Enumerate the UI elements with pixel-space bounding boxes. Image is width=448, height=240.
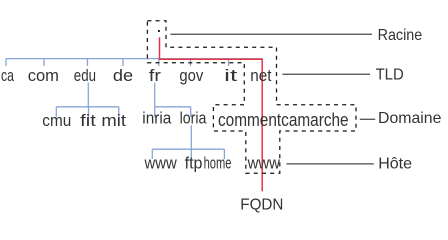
wire: tick www	[151, 149, 153, 159]
svg-text:www: www	[144, 154, 178, 173]
svg-text:TLD: TLD	[376, 67, 404, 84]
wire: tick fr	[158, 59, 160, 66]
svg-text:edu: edu	[74, 66, 96, 85]
wire: pointer line Hote	[286, 163, 373, 165]
svg-text:loria: loria	[180, 109, 207, 128]
svg-text:Domaine: Domaine	[378, 110, 442, 127]
svg-text:www: www	[247, 154, 281, 173]
wire: tick edu	[87, 59, 89, 66]
wire: tick it	[228, 59, 230, 66]
svg-text:it: it	[224, 66, 237, 85]
svg-text:mit: mit	[101, 111, 126, 130]
wire: pointer line Domaine	[360, 118, 375, 120]
dashed outline around highlighted DNS path	[147, 21, 356, 173]
wire: loria trunk	[190, 125, 192, 149]
wire: fr children bus	[155, 106, 191, 108]
svg-text:FQDN: FQDN	[240, 196, 283, 213]
svg-text:fit: fit	[80, 111, 96, 130]
wire: tick ftp	[190, 149, 192, 159]
svg-text:home: home	[204, 154, 232, 173]
svg-text:ftp: ftp	[185, 154, 203, 173]
wire: pointer line Racine	[170, 33, 372, 35]
wire: tick com	[43, 59, 45, 66]
wire: tick ca	[5, 59, 7, 66]
svg-text:cmu: cmu	[42, 111, 71, 130]
wire: loria children bus	[152, 148, 224, 150]
wire: edu children bus	[56, 106, 119, 108]
wire: tick fit	[88, 107, 90, 117]
wire: tick de	[122, 59, 124, 66]
wire: tick home	[223, 149, 225, 159]
svg-text:gov: gov	[179, 66, 203, 85]
wire: tick mit	[118, 107, 120, 117]
wire: fr trunk	[154, 83, 156, 107]
svg-text:net: net	[250, 66, 271, 85]
wire: edu trunk	[87, 83, 89, 107]
wire: red FQDN path root-net-commentcamarche-www	[160, 37, 263, 191]
wire: tick cmu	[55, 107, 57, 117]
svg-text:com: com	[28, 66, 59, 85]
svg-text:de: de	[113, 66, 133, 85]
svg-text:inria: inria	[142, 109, 171, 128]
svg-text:fr: fr	[149, 66, 161, 85]
wire: pointer line TLD	[282, 73, 370, 75]
svg-text:commentcamarche: commentcamarche	[218, 109, 349, 130]
wire: tick loria	[190, 107, 192, 117]
svg-text:ca: ca	[1, 66, 14, 85]
svg-text:Racine: Racine	[378, 27, 423, 44]
node: root dot	[158, 30, 160, 32]
wire: tick gov	[190, 59, 192, 66]
wire: TLD bus (blue horizontal)	[6, 58, 262, 60]
wire: tick inria	[154, 107, 156, 117]
svg-text:Hôte: Hôte	[378, 156, 412, 173]
